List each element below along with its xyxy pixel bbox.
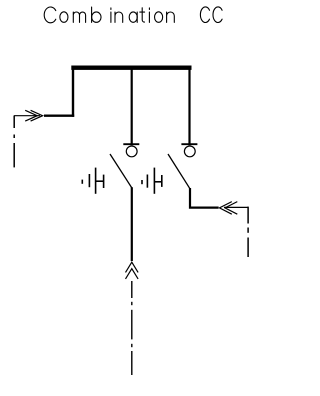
- n: [167, 12, 175, 22]
- arrow right feed (points left): [220, 202, 238, 215]
- wire: below switch 1: [131, 187, 133, 261]
- capacitor symbol 1: [82, 168, 103, 194]
- contact bar of cutout 2: [181, 143, 197, 145]
- wire: left drop from bus: [72, 70, 74, 117]
- o: [60, 12, 68, 23]
- C: [44, 7, 56, 23]
- wire: middle drop from bus: [131, 70, 133, 146]
- right dash-dot leader line: [247, 207, 249, 257]
- b: [91, 7, 93, 22]
- a: [129, 12, 137, 22]
- i: [110, 8, 112, 23]
- wire: left thin leader: [14, 115, 40, 117]
- m: [73, 12, 85, 22]
- C: [213, 7, 222, 23]
- switch blade 1 (open): [110, 154, 132, 188]
- bottom dash-dot leader line: [131, 281, 133, 375]
- wire: right thin leader: [224, 206, 248, 208]
- o: [155, 12, 163, 23]
- contact bar of cutout 1: [123, 143, 139, 145]
- title "Combination CC" (single-stroke CAD style glyphs): [44, 7, 222, 23]
- cutout circle 1: [126, 146, 137, 157]
- bus bar: [71, 66, 191, 70]
- left dash-dot leader line: [13, 116, 15, 168]
- i: [148, 8, 150, 23]
- arrow left feed (points right): [25, 110, 42, 121]
- wire: below switch 2, corner to right: [190, 188, 219, 208]
- arrow bottom feed (points up): [126, 262, 139, 279]
- cutout circle 2: [184, 146, 195, 157]
- C: [200, 7, 209, 23]
- n: [115, 12, 123, 22]
- capacitor symbol 2: [142, 168, 162, 194]
- wire: left horizontal: [44, 115, 74, 117]
- switch blade 2 (open): [168, 154, 190, 189]
- wire: right drop from bus: [188, 70, 190, 146]
- t: [140, 8, 145, 22]
